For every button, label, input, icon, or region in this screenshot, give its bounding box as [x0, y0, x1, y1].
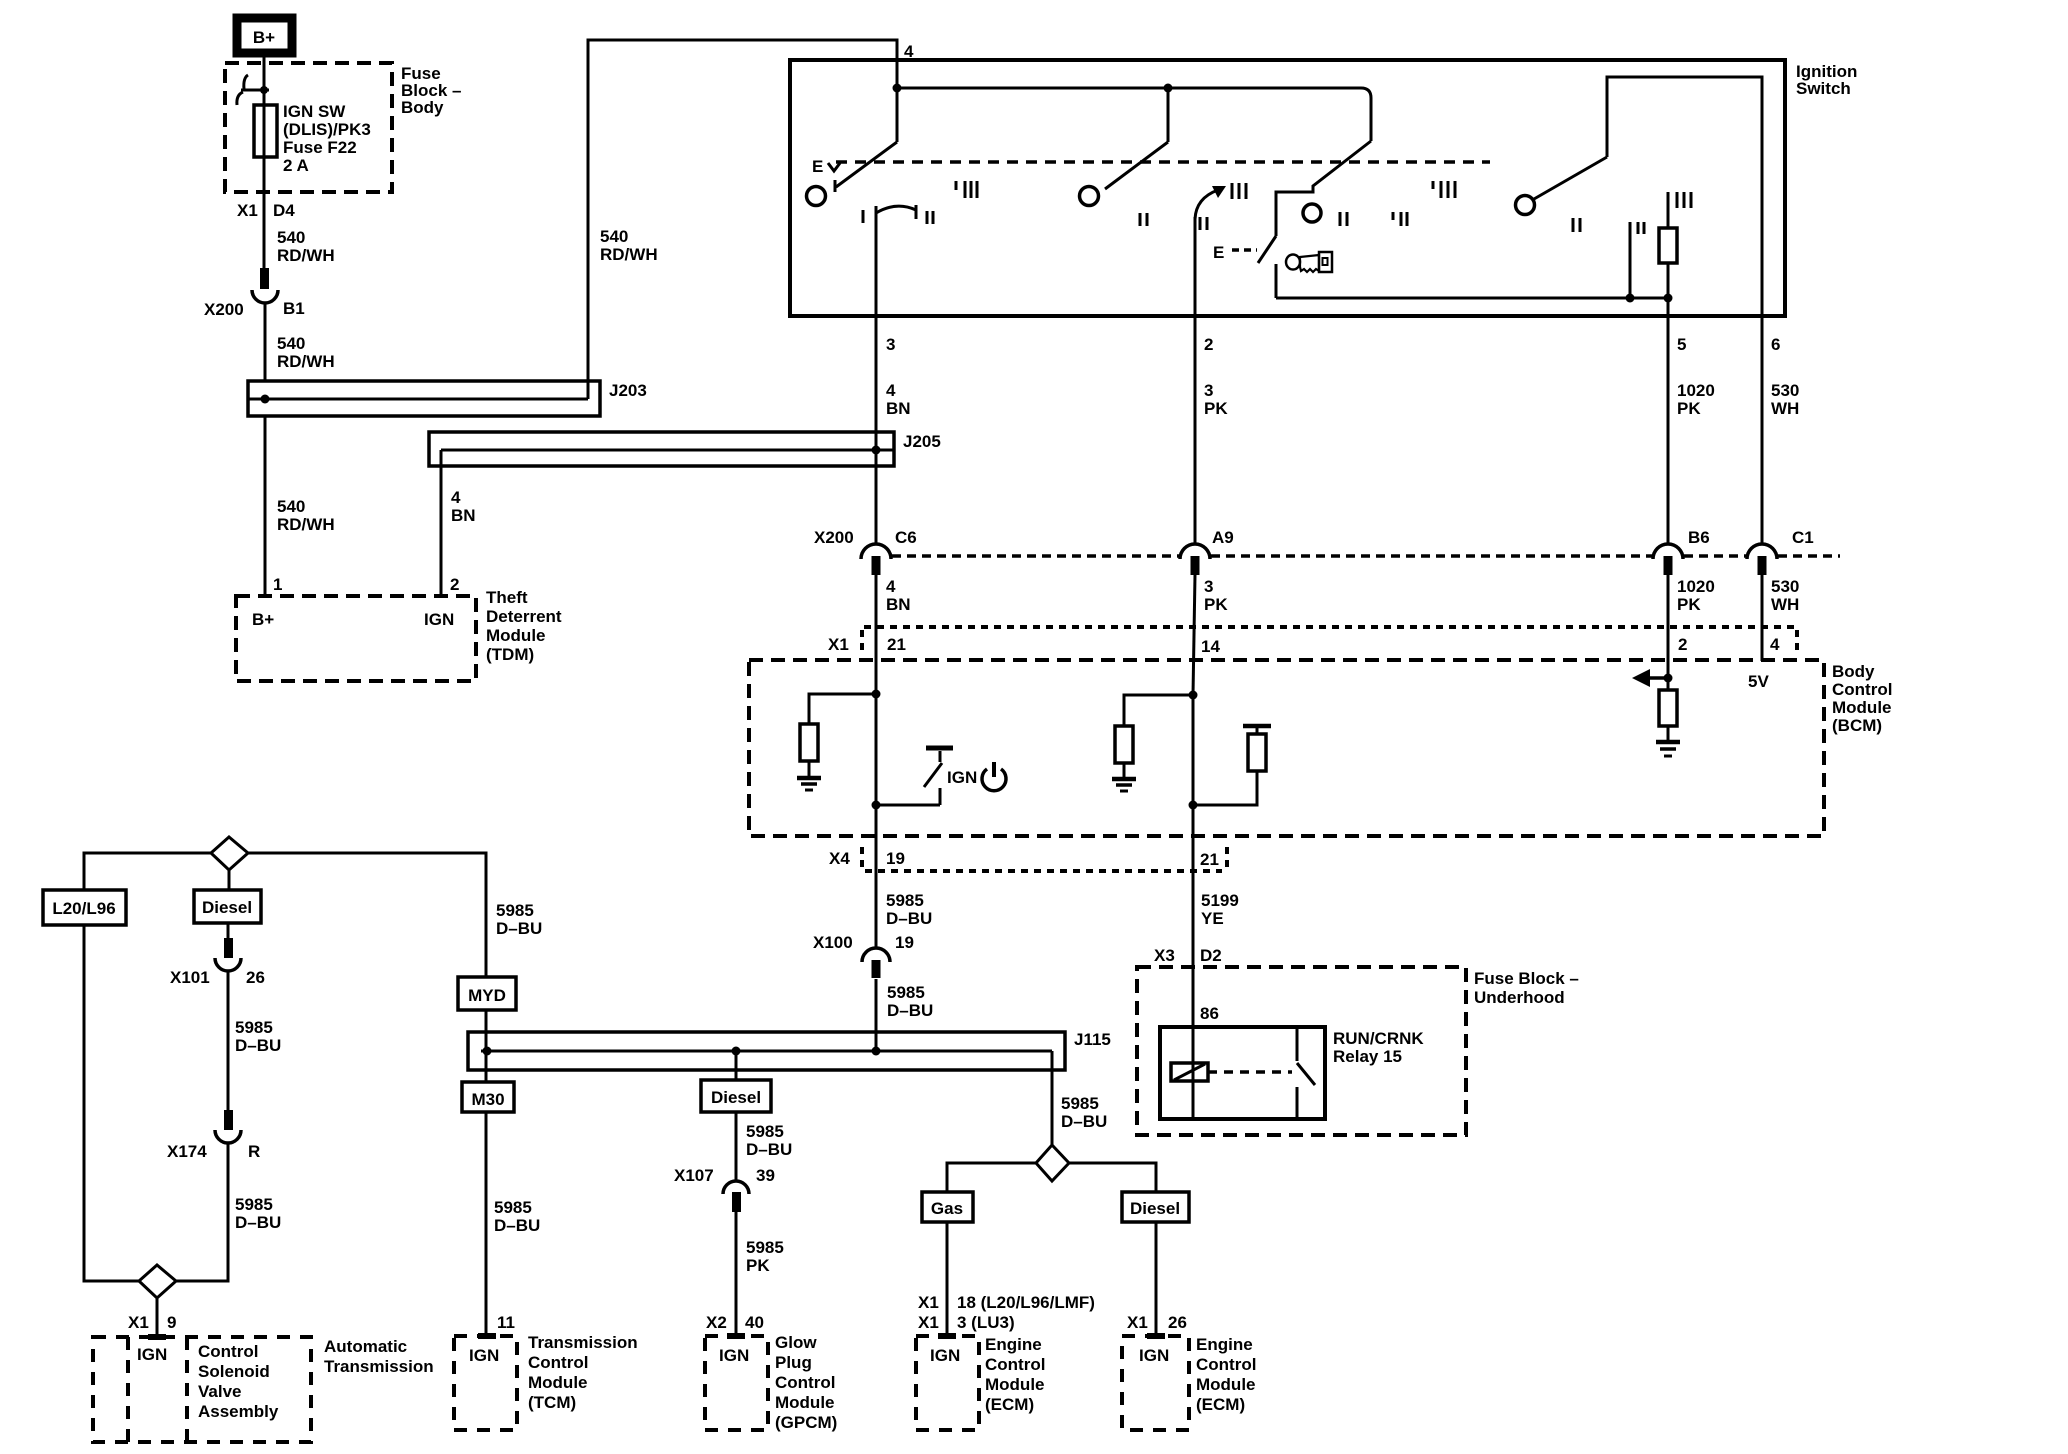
position ticks I III	[956, 181, 977, 198]
svg-text:2: 2	[1204, 335, 1213, 354]
svg-text:B6: B6	[1688, 528, 1710, 547]
svg-text:5: 5	[1677, 335, 1686, 354]
connector X107 39	[723, 1181, 749, 1212]
svg-text:540: 540	[600, 227, 628, 246]
svg-text:D–BU: D–BU	[235, 1036, 281, 1055]
transmission control module (TCM) dashed box	[454, 1336, 517, 1430]
svg-text:Diesel: Diesel	[711, 1088, 761, 1107]
wire 5985 D-BU X101 to X174	[227, 971, 230, 1111]
svg-text:(ECM): (ECM)	[985, 1395, 1034, 1414]
wire L20/L96 down to bottom diamond	[84, 925, 139, 1281]
connector X100 19	[862, 948, 890, 978]
svg-text:PK: PK	[1204, 595, 1228, 614]
svg-text:IGN: IGN	[930, 1346, 960, 1365]
splice J205	[429, 432, 894, 466]
svg-text:Underhood: Underhood	[1474, 988, 1565, 1007]
wire 5199 YE from X4-21	[1192, 836, 1195, 1027]
relay switch contacts	[1297, 1027, 1315, 1119]
svg-text:J115: J115	[1074, 1030, 1111, 1049]
wire 5985 D-BU to X107	[735, 1112, 738, 1181]
middle key switch assembly	[1276, 141, 1371, 236]
fuse IGN SW (DLIS)/PK3 F22 2A	[254, 105, 277, 157]
wire pin4 entering, internal bus	[896, 40, 899, 142]
svg-text:(BCM): (BCM)	[1832, 716, 1882, 735]
svg-text:5985: 5985	[235, 1195, 273, 1214]
svg-text:BN: BN	[886, 595, 911, 614]
pin labels ECM diesel	[1127, 1313, 1187, 1332]
BCM internal IGN switch	[876, 748, 953, 805]
fuse block - body dashed box	[225, 63, 392, 192]
wire 540 RD/WH from B+ down through fuse	[263, 57, 266, 269]
svg-text:IGN: IGN	[1139, 1346, 1169, 1365]
wire 540 RD/WH to J203	[264, 303, 267, 381]
position ticks middle	[1340, 212, 1407, 226]
wire to Gas branch	[947, 1163, 1036, 1192]
engine control module (ECM) gas dashed box	[916, 1336, 979, 1430]
wire ignition pin 2	[1194, 217, 1197, 545]
svg-text:Control: Control	[985, 1355, 1045, 1374]
svg-text:X200: X200	[204, 300, 244, 319]
svg-text:YE: YE	[1201, 909, 1224, 928]
wire MYD through J115 to M30	[485, 1010, 488, 1082]
connector X4 dotted line	[862, 847, 1227, 871]
svg-text:1020: 1020	[1677, 577, 1715, 596]
svg-text:B1: B1	[283, 299, 305, 318]
svg-text:540: 540	[277, 334, 305, 353]
svg-text:(TCM): (TCM)	[528, 1393, 576, 1412]
svg-text:Module: Module	[985, 1375, 1045, 1394]
svg-text:5985: 5985	[746, 1238, 784, 1257]
svg-text:5V: 5V	[1748, 672, 1769, 691]
svg-text:Fuse Block –: Fuse Block –	[1474, 969, 1579, 988]
BCM pin21 wire	[875, 694, 878, 836]
svg-text:X107: X107	[674, 1166, 714, 1185]
wire to control solenoid valve assembly	[156, 1298, 159, 1337]
resistor on BCM pin2	[1659, 690, 1677, 741]
svg-text:(TDM): (TDM)	[486, 645, 534, 664]
svg-text:J205: J205	[903, 432, 941, 451]
svg-text:Fuse F22: Fuse F22	[283, 138, 357, 157]
wire 5985 D-BU X174 to bottom diamond	[176, 1143, 228, 1281]
splice diamond top left	[211, 837, 248, 870]
svg-text:X4: X4	[829, 849, 850, 868]
ignition switch box	[790, 60, 1785, 316]
contact circle	[1303, 204, 1321, 222]
svg-text:Transmission: Transmission	[324, 1357, 434, 1376]
ignition bottom bus	[1276, 297, 1668, 300]
svg-text:19: 19	[895, 933, 914, 952]
svg-text:Control: Control	[1832, 680, 1892, 699]
control solenoid valve assembly dashed box	[93, 1337, 311, 1442]
svg-text:2 A: 2 A	[283, 156, 309, 175]
svg-text:RD/WH: RD/WH	[277, 515, 335, 534]
svg-text:PK: PK	[1677, 595, 1701, 614]
svg-text:3 (LU3): 3 (LU3)	[957, 1313, 1015, 1332]
svg-text:5985: 5985	[746, 1122, 784, 1141]
splice J115	[468, 1032, 1065, 1145]
svg-text:D–BU: D–BU	[494, 1216, 540, 1235]
svg-text:(ECM): (ECM)	[1196, 1395, 1245, 1414]
label Theft Deterrent Module (TDM)	[486, 588, 562, 664]
wire 5985 PK to GPCM	[735, 1212, 738, 1336]
glyph E-- at key	[1213, 243, 1257, 262]
svg-text:PK: PK	[1677, 399, 1701, 418]
switch wafer 5 right	[1516, 77, 1763, 316]
svg-text:Glow: Glow	[775, 1333, 817, 1352]
svg-text:4: 4	[1770, 635, 1780, 654]
svg-text:A9: A9	[1212, 528, 1234, 547]
svg-text:540: 540	[277, 228, 305, 247]
svg-text:Relay 15: Relay 15	[1333, 1047, 1402, 1066]
wire 530 WH pin6	[1761, 316, 1764, 545]
svg-text:X200: X200	[814, 528, 854, 547]
switch wafer 1 arm and contact	[807, 142, 898, 206]
wire ignition pin 3	[875, 213, 878, 545]
svg-text:X1: X1	[237, 201, 258, 220]
svg-text:C6: C6	[895, 528, 917, 547]
connector X101 26	[227, 923, 230, 939]
svg-text:D2: D2	[1200, 946, 1222, 965]
svg-text:5985: 5985	[494, 1198, 532, 1217]
fuse block - underhood dashed box	[1137, 967, 1466, 1135]
svg-text:5985: 5985	[1061, 1094, 1099, 1113]
wire Diesel mid branch from J115	[735, 1051, 738, 1080]
svg-text:26: 26	[246, 968, 265, 987]
svg-text:IGN: IGN	[719, 1346, 749, 1365]
svg-text:X174: X174	[167, 1142, 207, 1161]
wire 4 BN J205 to TDM pin 2	[440, 450, 443, 596]
svg-text:4: 4	[886, 577, 896, 596]
svg-text:D–BU: D–BU	[886, 909, 932, 928]
svg-text:5985: 5985	[235, 1018, 273, 1037]
wire 1020 PK pin5	[1667, 298, 1670, 545]
right contact column and resistor	[1629, 222, 1632, 298]
svg-text:4: 4	[886, 381, 896, 400]
theft deterrent module (TDM) dashed box	[236, 596, 476, 681]
svg-text:BN: BN	[451, 506, 476, 525]
svg-text:19: 19	[886, 849, 905, 868]
wire M30 to TCM	[485, 1112, 488, 1336]
svg-text:PK: PK	[1204, 399, 1228, 418]
wire 3 PK to BCM	[1193, 575, 1195, 695]
svg-text:2: 2	[450, 575, 459, 594]
glow plug control module (GPCM) dashed box	[705, 1336, 768, 1430]
power symbol	[982, 762, 1006, 791]
splice J203	[248, 381, 600, 416]
resistor R in BCM on pin 21	[800, 694, 876, 777]
svg-text:(DLIS)/PK3: (DLIS)/PK3	[283, 120, 371, 139]
svg-text:D–BU: D–BU	[746, 1140, 792, 1159]
svg-text:5985: 5985	[496, 901, 534, 920]
svg-text:Module: Module	[486, 626, 546, 645]
svg-text:18 (L20/L96/LMF): 18 (L20/L96/LMF)	[957, 1293, 1095, 1312]
svg-text:Diesel: Diesel	[1130, 1199, 1180, 1218]
RUN/CRNK relay 15 box	[1160, 1027, 1325, 1119]
wire 4 BN pin3 label	[886, 381, 911, 418]
svg-text:IGN: IGN	[424, 610, 454, 629]
svg-text:B+: B+	[252, 610, 274, 629]
svg-text:Solenoid: Solenoid	[198, 1362, 270, 1381]
svg-text:Body: Body	[1832, 662, 1875, 681]
resistor in ignition switch	[1659, 192, 1677, 298]
svg-text:21: 21	[1200, 850, 1219, 869]
svg-text:3: 3	[886, 335, 895, 354]
svg-text:X100: X100	[813, 933, 853, 952]
svg-text:BN: BN	[886, 399, 911, 418]
svg-text:Plug: Plug	[775, 1353, 812, 1372]
wire left run to L20/L96	[84, 853, 211, 890]
MYD box	[458, 977, 516, 1010]
Diesel box right	[1122, 1192, 1189, 1222]
svg-text:3: 3	[1204, 577, 1213, 596]
svg-text:IGN: IGN	[137, 1345, 167, 1364]
svg-text:Assembly: Assembly	[198, 1402, 279, 1421]
body control module (BCM) dashed box	[749, 660, 1824, 836]
resistor R in BCM on pin 14	[1115, 695, 1193, 778]
svg-text:WH: WH	[1771, 399, 1799, 418]
fuse clip symbol	[237, 75, 269, 105]
svg-text:39: 39	[756, 1166, 775, 1185]
key switch blade	[1258, 236, 1276, 263]
ground BCM pin2	[1656, 742, 1680, 756]
svg-text:IGN SW: IGN SW	[283, 102, 346, 121]
svg-text:D–BU: D–BU	[496, 919, 542, 938]
svg-text:Gas: Gas	[931, 1199, 963, 1218]
svg-text:PK: PK	[746, 1256, 770, 1275]
svg-text:3: 3	[1204, 381, 1213, 400]
svg-text:540: 540	[277, 497, 305, 516]
connector X1 dotted line	[862, 627, 1797, 652]
glyph E with down arrow	[812, 157, 840, 176]
svg-text:Control: Control	[198, 1342, 258, 1361]
label Fuse Block - Body	[401, 64, 461, 117]
svg-text:WH: WH	[1771, 595, 1799, 614]
svg-text:Automatic: Automatic	[324, 1337, 407, 1356]
svg-text:B+: B+	[253, 28, 275, 47]
svg-text:Module: Module	[775, 1393, 835, 1412]
Gas box	[922, 1192, 973, 1222]
wire 540 RD/WH right leg up and over to ignition switch pin 4	[588, 40, 897, 399]
svg-text:L20/L96: L20/L96	[52, 899, 115, 918]
svg-text:5199: 5199	[1201, 891, 1239, 910]
svg-text:Body: Body	[401, 98, 444, 117]
BCM pin14 wire	[1192, 695, 1195, 836]
svg-text:RD/WH: RD/WH	[600, 245, 658, 264]
Diesel box left	[194, 890, 261, 923]
svg-text:14: 14	[1201, 637, 1220, 656]
svg-text:D4: D4	[273, 201, 295, 220]
svg-text:Engine: Engine	[1196, 1335, 1253, 1354]
wire label 540 RD/WH	[277, 228, 335, 265]
ground in BCM left	[797, 778, 821, 790]
relay coil	[1171, 1027, 1208, 1119]
connector X200 C6	[861, 544, 891, 575]
wire 3 PK pin2 label	[1204, 381, 1228, 418]
pin label X3 D2	[1154, 946, 1222, 965]
svg-text:26: 26	[1168, 1313, 1187, 1332]
pin label X1 D4	[237, 201, 295, 220]
wire 540 RD/WH J203 to TDM pin 1	[264, 416, 267, 596]
svg-text:Module: Module	[1832, 698, 1892, 717]
svg-text:11: 11	[497, 1313, 515, 1332]
svg-text:5985: 5985	[887, 983, 925, 1002]
svg-text:X1: X1	[1127, 1313, 1148, 1332]
M30 box	[462, 1082, 514, 1112]
splice diamond right	[1036, 1145, 1069, 1181]
svg-text:IGN: IGN	[469, 1346, 499, 1365]
svg-text:C1: C1	[1792, 528, 1814, 547]
ignition internal dashed gate line	[836, 160, 1490, 164]
BCM pin2 wire with arrow	[1667, 678, 1670, 690]
connector A9	[1180, 544, 1210, 575]
wafer1 lower contact arc I II	[863, 205, 933, 224]
connector X174 R	[215, 1110, 241, 1143]
pull-up resistor on pin 14	[1193, 726, 1271, 805]
wire Diesel to ECM	[1155, 1222, 1158, 1336]
label Automatic Transmission	[324, 1337, 434, 1376]
switch wafer 3 curved arm (pin 2)	[1195, 186, 1226, 219]
splice diamond bottom left	[139, 1265, 176, 1298]
wire 1020 PK to BCM	[1667, 575, 1670, 690]
svg-text:IGN: IGN	[947, 768, 977, 787]
svg-text:D–BU: D–BU	[235, 1213, 281, 1232]
svg-text:9: 9	[167, 1313, 176, 1332]
svg-text:40: 40	[745, 1313, 764, 1332]
svg-text:Transmission: Transmission	[528, 1333, 638, 1352]
relay actuation dashed link	[1208, 1070, 1292, 1074]
svg-text:6: 6	[1771, 335, 1780, 354]
wire 4 BN to BCM	[875, 575, 878, 694]
svg-text:Theft: Theft	[486, 588, 528, 607]
svg-text:MYD: MYD	[468, 986, 506, 1005]
svg-text:530: 530	[1771, 381, 1799, 400]
svg-text:RD/WH: RD/WH	[277, 246, 335, 265]
svg-text:Deterrent: Deterrent	[486, 607, 562, 626]
wire 5985 D-BU to J115	[875, 979, 878, 1051]
connector C1	[1747, 544, 1777, 575]
Diesel box middle	[701, 1080, 771, 1112]
svg-text:E: E	[812, 157, 823, 176]
svg-text:X101: X101	[170, 968, 210, 987]
battery B+ terminal box	[237, 18, 292, 53]
svg-text:Control: Control	[1196, 1355, 1256, 1374]
svg-text:530: 530	[1771, 577, 1799, 596]
svg-text:E: E	[1213, 243, 1224, 262]
key glyph	[1286, 252, 1332, 272]
svg-text:X1: X1	[828, 635, 849, 654]
svg-text:J203: J203	[609, 381, 647, 400]
svg-text:5985: 5985	[886, 891, 924, 910]
svg-text:4: 4	[451, 488, 461, 507]
L20/L96 box	[43, 890, 126, 925]
svg-text:1020: 1020	[1677, 381, 1715, 400]
svg-text:X2: X2	[706, 1313, 727, 1332]
connector row dashed line	[892, 554, 1840, 558]
svg-text:Control: Control	[775, 1373, 835, 1392]
ground in BCM middle	[1112, 779, 1136, 791]
svg-text:2: 2	[1678, 635, 1687, 654]
svg-text:Module: Module	[1196, 1375, 1256, 1394]
svg-text:R: R	[248, 1142, 260, 1161]
svg-text:X1: X1	[918, 1293, 939, 1312]
terminal bar CSVA entry	[148, 1334, 166, 1340]
svg-text:D–BU: D–BU	[887, 1001, 933, 1020]
svg-text:Valve: Valve	[198, 1382, 242, 1401]
svg-text:X1: X1	[128, 1313, 149, 1332]
pin labels ECM gas	[918, 1293, 1095, 1312]
svg-text:Engine: Engine	[985, 1335, 1042, 1354]
svg-text:D–BU: D–BU	[1061, 1112, 1107, 1131]
ignition pin number labels	[886, 335, 1780, 354]
wire diamond down to Diesel left	[228, 870, 231, 890]
wire Gas to ECM	[946, 1222, 949, 1336]
svg-text:Module: Module	[528, 1373, 588, 1392]
svg-text:M30: M30	[471, 1090, 504, 1109]
svg-text:(GPCM): (GPCM)	[775, 1413, 837, 1432]
svg-text:RUN/CRNK: RUN/CRNK	[1333, 1029, 1424, 1048]
svg-text:X3: X3	[1154, 946, 1175, 965]
wire right run to MYD	[248, 853, 486, 977]
svg-text:Switch: Switch	[1796, 79, 1851, 98]
svg-text:Diesel: Diesel	[202, 898, 252, 917]
svg-text:RD/WH: RD/WH	[277, 352, 335, 371]
svg-text:86: 86	[1200, 1004, 1219, 1023]
wire to Diesel branch	[1069, 1163, 1156, 1192]
wire 530 WH to BCM	[1761, 575, 1764, 661]
svg-text:Control: Control	[528, 1353, 588, 1372]
switch wafer 2	[1080, 88, 1169, 206]
engine control module (ECM) diesel dashed box	[1122, 1336, 1189, 1430]
connector X200 B1 inline	[252, 268, 278, 303]
svg-text:21: 21	[887, 635, 906, 654]
svg-text:1: 1	[273, 575, 282, 594]
connector B6	[1653, 544, 1683, 575]
svg-text:X1: X1	[918, 1313, 939, 1332]
wire 5985 D-BU from X4-19	[875, 836, 878, 948]
